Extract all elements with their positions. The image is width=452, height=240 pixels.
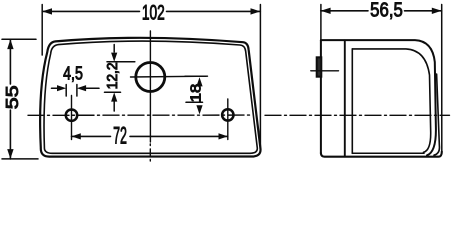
dimension 18: upper arrow [196, 77, 202, 86]
svg-text:102: 102 [142, 1, 165, 25]
side view bottom edge [321, 152, 442, 157]
holes centerline dash-dot (front view) [28, 114, 252, 116]
mounting hole right [222, 109, 233, 120]
svg-text:12,2: 12,2 [104, 62, 120, 89]
dimension 4,5: ticks [65, 85, 67, 97]
side view horizontal centerline dash-dot [265, 114, 450, 116]
mounting hole left [66, 110, 77, 121]
dimension 4,5: arrows [52, 87, 59, 89]
dimension 18: top tick [185, 75, 206, 77]
dimension 55: line [9, 39, 11, 84]
dimension 55: arrowheads [7, 39, 13, 49]
dimension 18: mid tick [186, 101, 203, 103]
side view left edge [320, 40, 322, 153]
dimension 102: line [42, 10, 139, 12]
dimension 72: line [72, 135, 111, 137]
front view outer outline [40, 38, 260, 157]
dimension 72: arrowheads [72, 133, 81, 139]
side view inner bottom line [352, 152, 424, 154]
side view inner vertical B [351, 49, 353, 153]
dimension 12,2: tick circle bottom [105, 91, 121, 93]
svg-text:72: 72 [113, 124, 127, 150]
side view tab centerline [311, 70, 339, 72]
dimension 18: lower arrow [196, 105, 202, 114]
dimension 102: extension lines [41, 5, 43, 56]
dimension 56,5: arrowheads [321, 8, 331, 14]
svg-text:56,5: 56,5 [370, 0, 403, 21]
right hole vertical line [227, 99, 229, 140]
side view inner vertical A [344, 40, 346, 156]
circle horizontal centerline [131, 75, 208, 78]
dimension 12,2: lower arrow [111, 92, 117, 101]
side view top edge and outer lens curve [321, 40, 436, 155]
circle vertical centerline [149, 31, 151, 142]
dimension 12,2: upper arrow [113, 45, 115, 53]
dimension 12,2: tick circle top [107, 61, 135, 63]
lens circle [136, 63, 165, 92]
svg-text:4,5: 4,5 [63, 64, 83, 84]
side view rear corner edge / extension of 56,5 [441, 5, 443, 152]
dimension 56,5: left extension [320, 5, 322, 41]
dimension 55: extension ticks [2, 38, 36, 40]
side view inner lens outline [352, 49, 430, 152]
left hole vertical line [71, 96, 73, 140]
front view inner outline [44, 41, 257, 153]
side view rear right edge [434, 74, 439, 155]
dimension 102: arrowheads [42, 8, 52, 14]
svg-text:55: 55 [3, 85, 23, 109]
dimension 56,5: line [321, 10, 368, 12]
svg-text:18: 18 [188, 83, 204, 102]
side view screw tab [317, 57, 322, 76]
